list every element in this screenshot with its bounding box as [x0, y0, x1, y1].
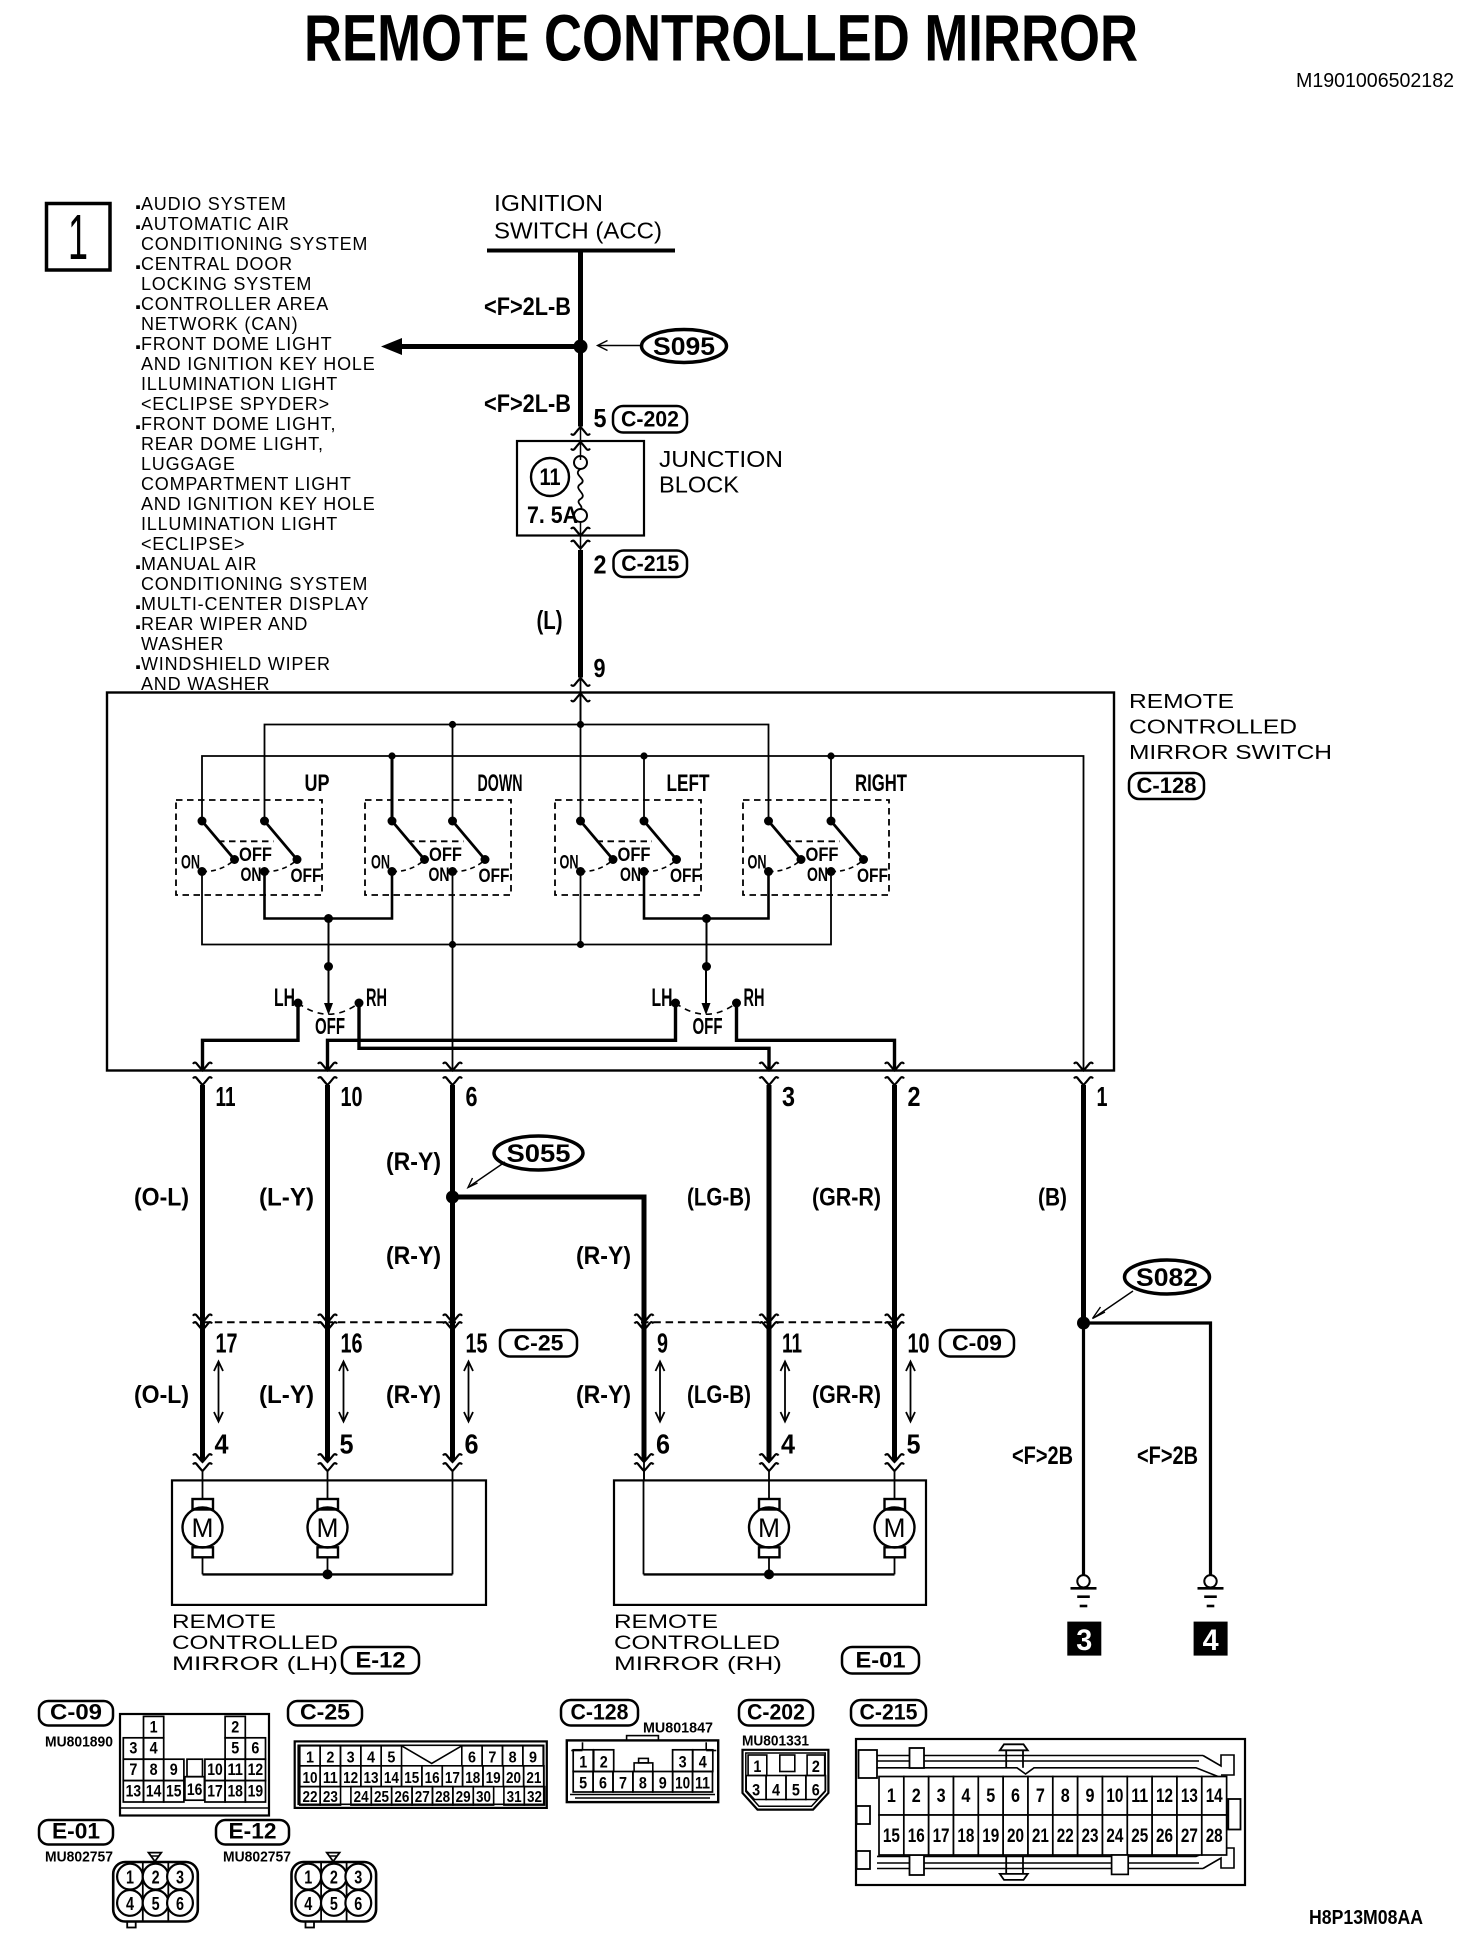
pin 10 label: [341, 1081, 363, 1112]
svg-text:22: 22: [302, 1789, 317, 1806]
svg-text:MU801890: MU801890: [45, 1734, 113, 1751]
svg-text:ON: ON: [181, 853, 200, 874]
svg-text:25: 25: [1131, 1826, 1148, 1847]
pin 11 label: [216, 1081, 236, 1112]
svg-text:11: 11: [540, 464, 561, 491]
svg-text:C-09: C-09: [50, 1700, 102, 1725]
svg-text:7: 7: [619, 1774, 627, 1793]
wire pin 11 (O-L): [200, 1085, 205, 1461]
svg-text:9: 9: [1086, 1786, 1095, 1807]
connector C-09 label: [940, 1330, 1014, 1357]
connector chevrons at wire x=769: [760, 1314, 779, 1330]
svg-text:7: 7: [488, 1749, 496, 1766]
connector E-12 part number MU802757: [223, 1849, 291, 1866]
svg-text:3: 3: [937, 1786, 946, 1807]
double arrow at wire x=327.5: [339, 1362, 348, 1422]
wire label (O-L) lower: [134, 1381, 189, 1409]
svg-text:4: 4: [126, 1894, 134, 1914]
svg-text:5: 5: [594, 403, 607, 433]
mirror pin 6 label at x=452.5: [465, 1429, 479, 1460]
svg-text:21: 21: [526, 1770, 541, 1787]
svg-text:4: 4: [367, 1749, 375, 1766]
svg-text:4: 4: [781, 1429, 795, 1460]
switch label LEFT: [667, 770, 710, 797]
svg-text:6: 6: [251, 1739, 259, 1758]
fuse rating 7.5A: [527, 502, 578, 529]
svg-text:REMOTE: REMOTE: [614, 1612, 718, 1633]
svg-text:OFF: OFF: [479, 866, 510, 887]
note list of systems: [136, 194, 375, 694]
svg-text:10: 10: [207, 1760, 223, 1779]
svg-text:4: 4: [961, 1786, 970, 1807]
connector E-01 pinout label: [39, 1819, 113, 1845]
wire pin 3 (LG-B): [767, 1085, 772, 1461]
double arrow at wire x=894.5: [906, 1362, 915, 1422]
svg-text:18: 18: [465, 1770, 480, 1787]
svg-text:11: 11: [323, 1770, 338, 1787]
switch LEFT right pole ON contact: [640, 861, 676, 876]
remote controlled mirror switch box: [107, 693, 1114, 1071]
svg-text:17: 17: [207, 1782, 223, 1801]
svg-text:MU801847: MU801847: [643, 1720, 713, 1737]
mirror LH common bus: [203, 1480, 453, 1579]
junction block box: [517, 441, 644, 536]
connector line C-09 dashed: [641, 1321, 898, 1323]
svg-text:ON: ON: [560, 853, 579, 874]
svg-text:RIGHT: RIGHT: [855, 770, 907, 797]
pin 6 label: [466, 1081, 478, 1112]
svg-text:C-128: C-128: [1137, 773, 1197, 798]
wire label (LG-B) lower: [687, 1381, 751, 1409]
switch DOWN left pole blade: [388, 817, 430, 865]
svg-text:4: 4: [304, 1894, 312, 1914]
svg-text:ILLUMINATION LIGHT: ILLUMINATION LIGHT: [141, 374, 338, 394]
svg-text:C-215: C-215: [860, 1700, 918, 1725]
switch unit DOWN dashed box: [365, 800, 511, 895]
svg-text:CONTROLLED: CONTROLLED: [614, 1633, 780, 1654]
wire label (GR-R) upper: [812, 1184, 881, 1212]
svg-text:LH: LH: [652, 984, 673, 1012]
svg-text:DOWN: DOWN: [478, 770, 523, 797]
svg-text:24: 24: [354, 1789, 369, 1806]
svg-text:MANUAL AIR: MANUAL AIR: [141, 554, 257, 574]
wire label (L): [537, 605, 563, 635]
svg-text:9: 9: [594, 653, 606, 683]
switch UP right pole ON contact: [260, 861, 296, 876]
switch RIGHT labels ON OFF: [748, 845, 889, 887]
connector C-25 label: [500, 1330, 577, 1357]
svg-text:OFF: OFF: [618, 845, 651, 866]
svg-text:(R-Y): (R-Y): [386, 1242, 441, 1270]
switch label UP: [305, 770, 330, 797]
junction block exit chevrons: [571, 522, 590, 550]
pin 5 label: [594, 403, 607, 433]
connector chevrons at wire x=202.5: [193, 1314, 212, 1330]
connector line C-25 dashed: [203, 1321, 457, 1323]
svg-text:9: 9: [659, 1774, 667, 1793]
svg-text:21: 21: [1032, 1826, 1049, 1847]
connector C-215 pinout diagram: [856, 1739, 1245, 1885]
svg-text:4: 4: [215, 1429, 229, 1460]
wire label <F>2L-B upper: [484, 293, 571, 321]
switch box exit chevrons pin 1: [1074, 1063, 1093, 1085]
svg-text:28: 28: [435, 1789, 450, 1806]
connector C-202 pinout diagram: [743, 1750, 829, 1810]
switch RIGHT right pole ON contact: [827, 861, 863, 876]
mirror pin 4 label at x=769: [781, 1429, 795, 1460]
switch box exit chevrons pin 10: [318, 1063, 337, 1085]
svg-text:CONDITIONING SYSTEM: CONDITIONING SYSTEM: [141, 234, 368, 254]
svg-text:19: 19: [486, 1770, 501, 1787]
selector 1 RH wire to pin 3: [359, 1003, 769, 1070]
svg-text:REMOTE: REMOTE: [1129, 691, 1234, 713]
svg-text:CONTROLLED: CONTROLLED: [172, 1633, 338, 1654]
svg-text:ILLUMINATION LIGHT: ILLUMINATION LIGHT: [141, 514, 338, 534]
svg-text:H8P13M08AA: H8P13M08AA: [1309, 1907, 1423, 1929]
wire pin 10 (L-Y): [325, 1085, 330, 1461]
svg-text:11: 11: [782, 1328, 802, 1359]
mirror LH vertical motor M: [183, 1480, 223, 1574]
svg-text:3: 3: [176, 1868, 184, 1888]
svg-text:JUNCTION: JUNCTION: [659, 446, 783, 472]
wire label (L-Y) upper: [259, 1184, 314, 1212]
svg-text:3: 3: [1076, 1624, 1092, 1657]
mirror entry chevrons at x=452.5: [443, 1454, 462, 1480]
switch UP left pole ON contact: [198, 861, 234, 876]
svg-text:<ECLIPSE SPYDER>: <ECLIPSE SPYDER>: [141, 394, 330, 414]
svg-text:ON: ON: [748, 853, 767, 874]
wire label (GR-R) lower: [812, 1381, 881, 1409]
selector 1 LH wire to pin 11: [203, 1003, 299, 1070]
svg-text:FRONT DOME LIGHT,: FRONT DOME LIGHT,: [141, 414, 336, 434]
wire (L) from junction block: [578, 550, 583, 678]
mirror LH label: [172, 1612, 338, 1675]
svg-text:6: 6: [812, 1781, 820, 1800]
svg-text:AND WASHER: AND WASHER: [141, 674, 270, 694]
connector C-09 pinout label: [39, 1700, 113, 1726]
connector C-128 part number MU801847: [643, 1720, 713, 1737]
svg-text:7. 5A: 7. 5A: [527, 502, 578, 529]
selector 1 dashed arc: [298, 1003, 359, 1014]
connector C-202 pinout label: [739, 1700, 813, 1726]
svg-text:13: 13: [126, 1782, 142, 1801]
connector C-25 pinout diagram: [295, 1741, 547, 1808]
svg-text:13: 13: [364, 1770, 379, 1787]
svg-text:REAR WIPER AND: REAR WIPER AND: [141, 614, 308, 634]
svg-text:17: 17: [933, 1826, 950, 1847]
svg-text:25: 25: [374, 1789, 389, 1806]
ignition switch bus bar: [487, 249, 675, 253]
svg-text:11: 11: [216, 1081, 236, 1112]
title REMOTE CONTROLLED MIRROR: [304, 1, 1138, 75]
switch UP left pole blade: [198, 817, 240, 865]
svg-text:29: 29: [456, 1789, 471, 1806]
svg-text:5: 5: [330, 1894, 338, 1914]
svg-text:M: M: [192, 1513, 214, 1543]
svg-text:5: 5: [792, 1781, 800, 1800]
svg-text:20: 20: [1007, 1826, 1024, 1847]
wire pin 6 (R-Y): [450, 1085, 455, 1461]
svg-text:MIRROR SWITCH: MIRROR SWITCH: [1129, 742, 1332, 764]
selector 2 RH wire to pin 2: [737, 1003, 895, 1070]
svg-text:(GR-R): (GR-R): [812, 1381, 881, 1409]
double arrow at wire x=452.5: [464, 1362, 473, 1422]
svg-text:23: 23: [1082, 1826, 1099, 1847]
svg-text:ON: ON: [429, 865, 450, 886]
pin 1 label: [1097, 1081, 1108, 1112]
svg-text:C-202: C-202: [621, 407, 679, 432]
mirror RH label: [614, 1612, 782, 1675]
svg-text:15: 15: [883, 1826, 900, 1847]
svg-text:2: 2: [812, 1757, 820, 1776]
svg-text:(L): (L): [537, 605, 563, 635]
mirror pin 4 label at x=202.5: [215, 1429, 229, 1460]
splice S095 junction dot: [574, 340, 588, 354]
svg-text:12: 12: [1156, 1786, 1173, 1807]
svg-text:10: 10: [302, 1770, 317, 1787]
switch RIGHT right pole blade: [827, 817, 869, 865]
pin 3 label: [782, 1081, 795, 1112]
svg-text:4: 4: [1203, 1624, 1219, 1657]
svg-text:RH: RH: [744, 984, 765, 1012]
svg-text:E-12: E-12: [356, 1648, 406, 1673]
switch DOWN right pole blade: [448, 817, 490, 865]
svg-text:AND IGNITION KEY HOLE: AND IGNITION KEY HOLE: [141, 494, 376, 514]
svg-text:(R-Y): (R-Y): [576, 1381, 631, 1409]
sheet code H8P13M08AA: [1309, 1907, 1423, 1929]
svg-text:2: 2: [330, 1868, 338, 1888]
svg-text:(O-L): (O-L): [134, 1381, 189, 1409]
connector C-25 pinout label: [288, 1700, 362, 1726]
svg-text:7: 7: [129, 1760, 137, 1779]
svg-text:5: 5: [579, 1774, 587, 1793]
switch RIGHT left pole ON contact: [764, 861, 800, 876]
connector C-09 pinout diagram: [120, 1714, 269, 1816]
connector C-09 part number MU801890: [45, 1734, 113, 1751]
svg-text:6: 6: [599, 1774, 607, 1793]
ground bus line: [202, 752, 1084, 1070]
connector pin 10 label: [908, 1328, 930, 1359]
svg-text:8: 8: [639, 1774, 647, 1793]
selector 2 LH wire to pin 10: [328, 1003, 676, 1070]
svg-text:11: 11: [227, 1760, 243, 1779]
svg-text:BLOCK: BLOCK: [659, 472, 740, 498]
svg-text:M: M: [317, 1513, 339, 1543]
svg-text:31: 31: [507, 1789, 522, 1806]
mirror pin 6 label at x=644: [656, 1429, 670, 1460]
svg-text:LH: LH: [274, 984, 295, 1012]
wire label (R-Y) lower left: [386, 1381, 441, 1409]
svg-text:2: 2: [594, 550, 607, 580]
output DOWN-right to pin 6 wire: [452, 872, 454, 1071]
mirror entry chevrons at x=644: [635, 1454, 654, 1480]
svg-text:26: 26: [394, 1789, 409, 1806]
connector C-202 part number MU801331: [742, 1733, 809, 1750]
selector 2 OFF label: [693, 1013, 723, 1039]
svg-text:OFF: OFF: [239, 845, 272, 866]
wire label <F>2L-B lower: [484, 390, 571, 418]
splice S055 label: [494, 1136, 583, 1170]
svg-text:26: 26: [1156, 1826, 1173, 1847]
svg-text:19: 19: [248, 1782, 264, 1801]
wire label (R-Y) mid right: [576, 1242, 631, 1270]
svg-text:6: 6: [176, 1894, 184, 1914]
svg-text:3: 3: [752, 1781, 760, 1800]
ground wire to ground 3: [1082, 1323, 1085, 1575]
wire label (R-Y) upper: [386, 1148, 441, 1176]
svg-text:8: 8: [150, 1760, 158, 1779]
wire ACC feed upper: [578, 251, 583, 347]
svg-text:12: 12: [248, 1760, 264, 1779]
svg-text:CONTROLLER AREA: CONTROLLER AREA: [141, 294, 329, 314]
svg-text:<F>2L-B: <F>2L-B: [484, 293, 571, 321]
ground symbol 4: [1198, 1575, 1224, 1606]
selector 2 feed from LEFT/RIGHT: [644, 872, 769, 972]
svg-text:6: 6: [465, 1429, 479, 1460]
connector E-12 pinout label: [216, 1819, 289, 1845]
svg-text:8: 8: [1061, 1786, 1070, 1807]
svg-text:30: 30: [476, 1789, 491, 1806]
svg-text:1: 1: [68, 201, 88, 273]
splice S095 label: [642, 330, 727, 363]
mirror pin 5 label at x=894.5: [907, 1429, 921, 1460]
svg-text:12: 12: [343, 1770, 358, 1787]
wire S055 branch (R-Y): [453, 1197, 645, 1461]
svg-text:1: 1: [579, 1753, 587, 1772]
svg-text:NETWORK (CAN): NETWORK (CAN): [141, 314, 298, 334]
svg-text:<ECLIPSE>: <ECLIPSE>: [141, 534, 245, 554]
svg-text:(L-Y): (L-Y): [259, 1184, 314, 1212]
svg-text:9: 9: [529, 1749, 537, 1766]
remote controlled mirror RH box: [614, 1480, 926, 1605]
svg-text:24: 24: [1106, 1826, 1123, 1847]
svg-text:E-01: E-01: [52, 1819, 100, 1844]
svg-text:(GR-R): (GR-R): [812, 1184, 881, 1212]
connector C-202 label: [613, 406, 687, 433]
svg-text:IGNITION: IGNITION: [494, 190, 603, 216]
switch label DOWN: [478, 770, 523, 797]
svg-text:20: 20: [506, 1770, 521, 1787]
svg-text:MU801331: MU801331: [742, 1733, 809, 1750]
switch unit UP dashed box: [176, 800, 322, 895]
svg-text:16: 16: [187, 1780, 203, 1799]
switch LEFT labels ON OFF: [560, 845, 702, 887]
svg-text:MU802757: MU802757: [223, 1849, 291, 1866]
svg-text:1: 1: [306, 1749, 314, 1766]
svg-text:RH: RH: [366, 984, 387, 1012]
remote controlled mirror switch label: [1129, 691, 1332, 764]
svg-text:(O-L): (O-L): [134, 1184, 189, 1212]
note box 1: [47, 201, 111, 273]
svg-text:SWITCH (ACC): SWITCH (ACC): [494, 218, 662, 244]
svg-text:6: 6: [468, 1749, 476, 1766]
svg-text:(B): (B): [1038, 1184, 1067, 1212]
feed branch DOWN-right: [452, 725, 454, 822]
splice S082 junction dot: [1077, 1317, 1090, 1330]
connector E-12 label: [342, 1647, 419, 1674]
svg-text:3: 3: [129, 1739, 137, 1758]
svg-text:10: 10: [675, 1774, 690, 1793]
svg-text:S082: S082: [1136, 1264, 1198, 1292]
svg-text:MIRROR (RH): MIRROR (RH): [614, 1654, 782, 1675]
svg-text:<F>2B: <F>2B: [1137, 1442, 1198, 1470]
svg-text:<F>2B: <F>2B: [1012, 1442, 1073, 1470]
wire label (B): [1038, 1184, 1067, 1212]
pin 9 label: [594, 653, 606, 683]
svg-text:C-128: C-128: [571, 1700, 629, 1725]
svg-text:2: 2: [912, 1786, 921, 1807]
svg-text:1: 1: [887, 1786, 896, 1807]
mirror LH horizontal motor M: [308, 1480, 348, 1574]
svg-text:16: 16: [908, 1826, 925, 1847]
mirror RH common bus: [644, 1461, 895, 1579]
double arrow at wire x=769: [781, 1362, 790, 1422]
svg-text:(LG-B): (LG-B): [687, 1381, 751, 1409]
svg-text:C-25: C-25: [514, 1331, 564, 1356]
connector C-128 label: [1129, 773, 1204, 799]
svg-text:REMOTE: REMOTE: [172, 1612, 276, 1633]
wire label (R-Y) lower right: [576, 1381, 631, 1409]
ground 4 number box: [1194, 1622, 1227, 1657]
svg-text:(R-Y): (R-Y): [386, 1381, 441, 1409]
svg-text:11: 11: [1131, 1786, 1148, 1807]
mirror entry chevrons at x=327.5: [318, 1454, 337, 1480]
pin 2 label: [594, 550, 607, 580]
svg-text:M: M: [884, 1513, 906, 1543]
svg-text:7: 7: [1036, 1786, 1045, 1807]
connector E-12 pinout diagram: [292, 1853, 377, 1928]
svg-text:3: 3: [782, 1081, 795, 1112]
arrow from S082 to junction: [1093, 1291, 1134, 1319]
svg-text:C-09: C-09: [952, 1331, 1002, 1356]
svg-text:14: 14: [1206, 1786, 1223, 1807]
svg-text:(R-Y): (R-Y): [576, 1242, 631, 1270]
svg-text:REMOTE CONTROLLED MIRROR: REMOTE CONTROLLED MIRROR: [304, 1, 1138, 75]
wire label (O-L) upper: [134, 1184, 189, 1212]
svg-text:10: 10: [908, 1328, 930, 1359]
svg-text:6: 6: [354, 1894, 362, 1914]
mirror entry chevrons at x=894.5: [885, 1454, 904, 1480]
svg-text:6: 6: [656, 1429, 670, 1460]
switch LEFT left pole blade: [576, 817, 618, 865]
svg-text:1: 1: [126, 1868, 134, 1888]
selector 2 dashed arc: [676, 1003, 737, 1014]
connector E-01 part number MU802757: [45, 1849, 113, 1866]
splice S055 junction dot: [446, 1191, 459, 1204]
wire ACC feed lower: [578, 347, 583, 427]
svg-text:S055: S055: [507, 1140, 571, 1168]
svg-text:ON: ON: [807, 865, 828, 886]
svg-text:2: 2: [231, 1717, 239, 1736]
switch LEFT left pole ON contact: [576, 861, 612, 876]
switch UP labels ON OFF: [181, 845, 322, 887]
wire label (R-Y) mid left: [386, 1242, 441, 1270]
svg-text:5: 5: [231, 1739, 239, 1758]
svg-text:17: 17: [216, 1328, 238, 1359]
svg-text:(R-Y): (R-Y): [386, 1148, 441, 1176]
svg-text:5: 5: [340, 1429, 354, 1460]
svg-text:OFF: OFF: [693, 1013, 723, 1039]
svg-text:5: 5: [986, 1786, 995, 1807]
connector C-128 pinout label: [561, 1700, 638, 1726]
output bus line to pin 6: [202, 872, 831, 949]
svg-text:FRONT DOME LIGHT: FRONT DOME LIGHT: [141, 334, 332, 354]
svg-text:MIRROR (LH): MIRROR (LH): [172, 1654, 338, 1675]
svg-text:2: 2: [326, 1749, 334, 1766]
connector C-202 chevrons: [571, 427, 590, 461]
ground wire branch to ground 4: [1084, 1323, 1211, 1575]
svg-text:E-12: E-12: [229, 1819, 277, 1844]
